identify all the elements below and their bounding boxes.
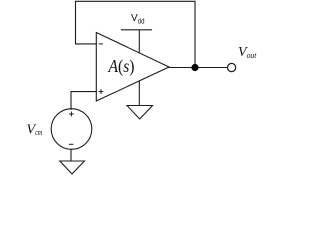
- svg-text:A(s): A(s): [108, 56, 135, 77]
